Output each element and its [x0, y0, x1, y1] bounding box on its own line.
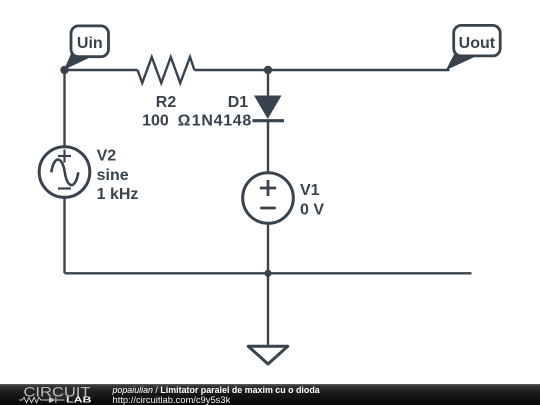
svg-text:Uin: Uin — [77, 35, 103, 52]
svg-text:0 V: 0 V — [300, 201, 324, 218]
svg-text:V2: V2 — [97, 148, 117, 165]
svg-text:1N4148: 1N4148 — [192, 112, 252, 129]
svg-text:100 Ω: 100 Ω — [142, 112, 191, 129]
svg-text:1 kHz: 1 kHz — [97, 186, 139, 203]
svg-text:R2: R2 — [156, 94, 177, 111]
svg-text:Uout: Uout — [459, 35, 496, 52]
svg-text:LAB: LAB — [66, 396, 92, 405]
svg-text:sine: sine — [97, 167, 129, 184]
svg-text:V1: V1 — [300, 182, 320, 199]
svg-text:D1: D1 — [228, 94, 249, 111]
svg-text:http://circuitlab.com/c9y5s3k: http://circuitlab.com/c9y5s3k — [113, 394, 231, 405]
